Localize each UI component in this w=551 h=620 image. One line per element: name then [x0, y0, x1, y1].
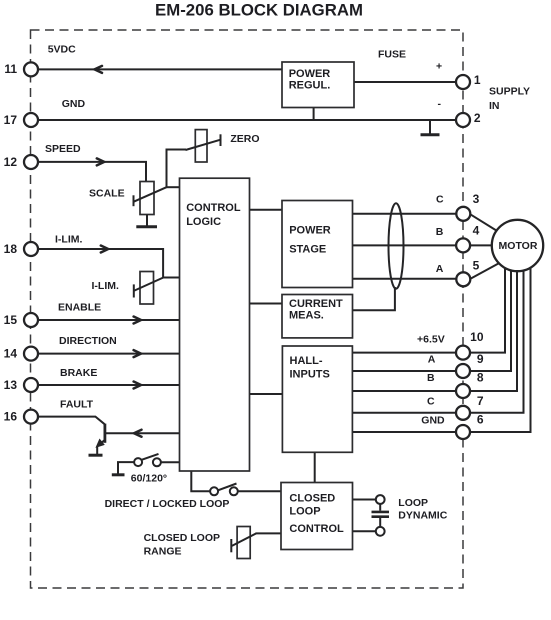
svg-text:C: C	[436, 193, 444, 205]
block CURRENT MEAS.	[282, 295, 353, 338]
wire power regulator bottom to GND net	[313, 107, 315, 120]
trimmer ZERO body	[195, 130, 207, 162]
wire ground to switch 60/120	[118, 462, 134, 474]
svg-text:I-LIM.: I-LIM.	[55, 234, 82, 246]
switch DIRECT/LOCKED LOOP contact A	[210, 487, 218, 495]
potentiometer I-LIM. body	[140, 272, 154, 305]
svg-text:MOTOR: MOTOR	[499, 240, 538, 252]
block POWER REGUL.	[282, 62, 354, 108]
svg-text:5VDC: 5VDC	[48, 44, 76, 56]
svg-text:FAULT: FAULT	[60, 398, 94, 410]
wire hall C (box to terminal 7)	[353, 412, 458, 414]
svg-text:IN: IN	[489, 100, 500, 112]
svg-text:SCALE: SCALE	[89, 188, 125, 200]
wire current meas to cable bundle	[353, 287, 395, 310]
terminal 12	[24, 155, 38, 169]
wire DIRECTION (terminal 14 to control logic)	[37, 353, 180, 355]
wire motor to terminal 7	[470, 260, 524, 413]
switch 60/120 contact A	[134, 458, 142, 466]
trimmer CLOSED LOOP RANGE body	[237, 527, 250, 559]
arrow on BRAKE wire	[134, 382, 141, 389]
terminal 1	[456, 75, 470, 89]
ground symbol under transistor emitter	[89, 454, 103, 457]
wire closed loop control to loop dynamic terminal (bottom)	[353, 530, 377, 532]
svg-text:EM-206 BLOCK DIAGRAM: EM-206 BLOCK DIAGRAM	[155, 0, 363, 19]
terminal 7	[456, 406, 470, 420]
terminal 6	[456, 425, 470, 439]
trimmer CLOSED LOOP RANGE wiper	[230, 539, 232, 552]
arrow on base wire (pointing left)	[134, 430, 142, 437]
svg-text:ZERO: ZERO	[230, 133, 259, 145]
terminal 2	[456, 113, 470, 127]
svg-text:11: 11	[4, 62, 17, 76]
svg-text:GND: GND	[62, 98, 86, 110]
wire 5VDC (terminal 11 to power regulator)	[37, 68, 282, 70]
wire ENABLE (terminal 15 to control logic)	[37, 319, 180, 321]
dashed enclosure border	[31, 30, 464, 588]
svg-text:+: +	[436, 61, 442, 73]
svg-text:B: B	[436, 226, 444, 238]
svg-text:14: 14	[4, 346, 18, 360]
svg-text:13: 13	[4, 378, 18, 392]
svg-text:DIRECTION: DIRECTION	[59, 335, 117, 347]
wire motor to terminal 9	[470, 260, 512, 371]
svg-text:8: 8	[477, 370, 484, 384]
wire terminal 4 to motor	[470, 244, 501, 246]
wire terminal 3 to motor	[470, 214, 503, 234]
wire phase B (power stage to terminal 4)	[353, 244, 458, 246]
svg-text:A: A	[436, 263, 444, 275]
wire FAULT (terminal 16 to transistor collector)	[37, 417, 105, 425]
wire control logic to hall-inputs	[250, 393, 283, 395]
svg-text:18: 18	[4, 242, 18, 256]
potentiometer SCALE wiper	[133, 195, 135, 206]
motor M1	[492, 220, 543, 271]
ground symbol under SCALE potentiometer	[146, 215, 148, 227]
terminal 8	[456, 384, 470, 398]
terminal 5	[456, 272, 470, 286]
terminal 18	[24, 242, 38, 256]
svg-text:STAGE: STAGE	[289, 243, 326, 255]
wire motor to terminal 10	[470, 258, 506, 353]
wire + supply (power regulator to terminal 1)	[353, 81, 457, 83]
wire GND (terminal 17 to terminal 2)	[37, 119, 457, 121]
terminal 16	[24, 410, 38, 424]
svg-text:12: 12	[4, 155, 18, 169]
wire scale junction to control logic	[167, 186, 181, 188]
svg-text:CLOSED: CLOSED	[289, 492, 335, 504]
wire switch 60/120 to control logic	[161, 461, 180, 463]
trimmer ZERO wiper	[186, 140, 221, 150]
capacitor C1 (loop dynamic)	[379, 504, 381, 511]
svg-text:1: 1	[474, 73, 481, 87]
svg-text:CLOSED LOOP: CLOSED LOOP	[144, 532, 220, 544]
svg-text:FUSE: FUSE	[378, 48, 406, 60]
terminal 14	[24, 347, 38, 361]
wire hall A (box to terminal 9)	[353, 370, 458, 372]
wire hall B (box to terminal 8)	[353, 390, 458, 392]
svg-text:16: 16	[4, 409, 18, 423]
svg-text:7: 7	[477, 394, 484, 408]
svg-text:10: 10	[470, 330, 484, 344]
terminal 10	[456, 346, 470, 360]
block HALL-INPUTS	[282, 346, 352, 452]
svg-text:B: B	[427, 372, 435, 384]
svg-text:60/120°: 60/120°	[131, 473, 167, 485]
potentiometer SCALE body	[140, 182, 154, 215]
wire range trimmer to closed loop control	[256, 532, 282, 534]
block CLOSED LOOP CONTROL	[281, 483, 353, 550]
switch 60/120 contact B	[153, 458, 161, 466]
arrow on SPEED wire	[97, 158, 104, 165]
cable bundle ellipse	[389, 203, 404, 288]
svg-text:POWER: POWER	[289, 225, 331, 237]
wire control logic to current meas	[250, 303, 283, 305]
loop dynamic terminal circle bottom	[376, 527, 385, 536]
wire control logic to direct/locked loop switch	[191, 471, 210, 492]
arrow on I-LIM wire	[101, 246, 108, 253]
arrow on 5VDC wire (pointing left)	[95, 66, 103, 73]
svg-text:REGUL.: REGUL.	[289, 80, 331, 92]
wire scale junction to zero trimmer	[167, 150, 187, 188]
svg-text:I-LIM.: I-LIM.	[92, 280, 119, 292]
wire phase A (power stage to terminal 5)	[353, 278, 458, 280]
svg-text:SUPPLY: SUPPLY	[489, 86, 530, 98]
svg-text:LOGIC: LOGIC	[186, 216, 221, 228]
wire motor to terminal 8	[470, 262, 518, 391]
svg-text:CONTROL: CONTROL	[186, 202, 241, 214]
svg-text:+6.5V: +6.5V	[417, 333, 445, 345]
svg-text:4: 4	[473, 224, 480, 238]
svg-text:CONTROL: CONTROL	[289, 523, 344, 535]
wire switch to closed loop control	[238, 490, 282, 492]
svg-text:DYNAMIC: DYNAMIC	[398, 510, 447, 522]
svg-text:DIRECT / LOCKED LOOP: DIRECT / LOCKED LOOP	[105, 498, 230, 510]
wire BRAKE (terminal 13 to control logic)	[37, 384, 180, 386]
transistor Q1 base bar	[104, 424, 107, 443]
terminal 3	[456, 207, 470, 221]
svg-text:LOOP: LOOP	[289, 506, 320, 518]
block CONTROL LOGIC	[180, 178, 250, 471]
svg-text:SPEED: SPEED	[45, 143, 81, 155]
wire motor to terminal 6	[470, 257, 531, 432]
loop dynamic terminal circle top	[376, 495, 385, 504]
svg-text:LOOP: LOOP	[398, 497, 428, 509]
wire hall-inputs to closed loop control	[314, 452, 316, 483]
svg-text:9: 9	[477, 352, 484, 366]
ground symbol for 60/120 switch	[112, 473, 125, 476]
wire phase C (power stage to terminal 3)	[353, 213, 458, 215]
svg-text:-: -	[438, 98, 442, 110]
wire transistor base to control logic	[106, 432, 180, 434]
wire closed loop control to loop dynamic terminal (top)	[353, 499, 377, 501]
wire emitter to ground	[96, 447, 98, 455]
svg-text:C: C	[427, 396, 435, 408]
block POWER STAGE	[282, 201, 353, 288]
wire control logic to power stage	[250, 209, 283, 211]
terminal 17	[24, 113, 38, 127]
svg-text:5: 5	[473, 258, 480, 272]
svg-text:3: 3	[473, 192, 480, 206]
transistor Q1 emitter	[98, 440, 105, 446]
svg-text:2: 2	[474, 111, 481, 125]
svg-text:GND: GND	[421, 414, 445, 426]
switch DIRECT/LOCKED LOOP contact B	[230, 487, 238, 495]
terminal 13	[24, 378, 38, 392]
switch 60/120 lever	[142, 454, 159, 460]
svg-text:HALL-: HALL-	[290, 355, 323, 367]
wire hall +6.5V (box to terminal 10)	[353, 352, 458, 354]
wire hall GND (box to terminal 6)	[353, 431, 458, 433]
svg-text:BRAKE: BRAKE	[60, 367, 97, 379]
svg-text:CURRENT: CURRENT	[289, 298, 343, 310]
svg-text:POWER: POWER	[289, 68, 331, 80]
svg-text:INPUTS: INPUTS	[290, 368, 330, 380]
arrow on DIRECTION wire	[134, 350, 141, 357]
svg-text:RANGE: RANGE	[144, 545, 182, 557]
terminal 15	[24, 313, 38, 327]
switch DIRECT/LOCKED LOOP lever	[218, 484, 237, 491]
ground symbol on GND net near terminal 2	[429, 120, 431, 134]
wire SPEED (terminal 12 to scale potentiometer)	[37, 162, 146, 182]
svg-text:17: 17	[4, 113, 18, 127]
svg-text:ENABLE: ENABLE	[58, 302, 101, 314]
wire I-LIM (terminal 18 to control logic)	[37, 249, 180, 278]
svg-text:15: 15	[4, 313, 18, 327]
wire terminal 5 to motor	[470, 261, 504, 279]
svg-text:A: A	[428, 354, 436, 366]
terminal 11	[24, 62, 38, 76]
arrow on ENABLE wire	[134, 317, 141, 324]
svg-text:MEAS.: MEAS.	[289, 310, 324, 322]
potentiometer I-LIM. wiper	[133, 284, 135, 297]
terminal 9	[456, 364, 470, 378]
svg-text:6: 6	[477, 413, 484, 427]
terminal 4	[456, 238, 470, 252]
